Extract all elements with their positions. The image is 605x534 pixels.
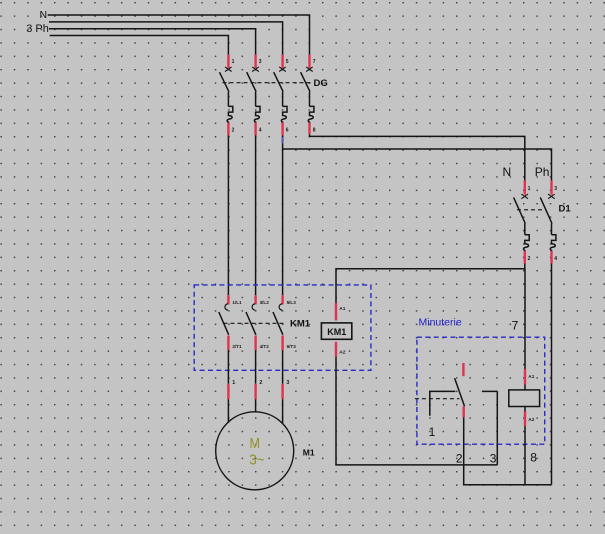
timer coil terminal A2	[524, 407, 526, 412]
node 7 junction: neutral continues down to timer coil	[524, 269, 526, 370]
svg-text:3~: 3~	[249, 451, 265, 468]
timer contact blade	[455, 378, 465, 406]
svg-text:5: 5	[286, 59, 289, 65]
wire phase L3: DG pole 6 to KM1 contact 5, tapped for control Ph	[282, 135, 284, 295]
svg-text:D1: D1	[559, 204, 572, 215]
svg-text:1: 1	[528, 186, 531, 192]
svg-text:A2: A2	[339, 349, 345, 355]
svg-text:8: 8	[530, 451, 537, 465]
timer (Minuterie) enclosure blue dashed	[417, 337, 545, 444]
contactor KM1 enclosure (blue dashed)	[194, 285, 371, 370]
wire timer coil A2 down to node 8	[524, 426, 526, 485]
svg-text:Minuterie: Minuterie	[419, 317, 462, 329]
control breaker D1 pole 1-2	[514, 181, 531, 264]
wire phase L3 bus to DG pole 5	[49, 22, 283, 55]
svg-text:1: 1	[232, 380, 235, 386]
svg-text:5/L3: 5/L3	[287, 300, 297, 305]
wire control phase tap: L3 node right to D1	[283, 149, 552, 181]
main breaker DG pole 7-8	[301, 55, 316, 135]
svg-text:Ph: Ph	[535, 165, 550, 179]
svg-text:A2: A2	[528, 417, 534, 423]
KM1 main contact 3/L2-4/T2	[246, 295, 269, 350]
wire phase from D1 pole 4 down to node 8	[551, 264, 553, 485]
KM1 main contact 5/L3-6/T3	[273, 295, 296, 350]
wire timer contact terminal 3 drop	[496, 391, 498, 465]
main breaker DG pole 1-2	[220, 55, 235, 136]
timer coil terminal A1	[524, 369, 526, 385]
svg-text:8: 8	[313, 128, 316, 134]
timer contact terminal 3 seat	[482, 390, 497, 392]
svg-text:4/T2: 4/T2	[260, 344, 270, 349]
svg-text:1/L1: 1/L1	[232, 300, 242, 305]
wire phase L2 bus to DG pole 3	[49, 29, 256, 55]
svg-text:2: 2	[232, 128, 235, 134]
svg-text:2: 2	[259, 380, 262, 386]
KM1 contacts mechanical linkage dashed line	[224, 322, 287, 324]
wire timer contact terminal 2 to node 8	[464, 417, 552, 485]
wire neutral: DG pole 8 right to control circuit D1	[310, 134, 525, 180]
KM1 coil terminal A1	[335, 303, 337, 321]
svg-text:KM1: KM1	[290, 319, 311, 330]
svg-text:4: 4	[259, 128, 262, 134]
svg-text:3/L2: 3/L2	[260, 300, 270, 305]
svg-text:7: 7	[512, 318, 519, 332]
wire neutral from D1 pole 2 to KM1 coil A1	[336, 264, 525, 304]
wire KM1 contact 2/T1 to motor terminal 1	[228, 350, 235, 422]
junction marker on phase L3 tap	[282, 137, 284, 144]
wire KM1 contact 6/T3 to motor terminal 3	[283, 350, 290, 423]
svg-text:DG: DG	[314, 78, 328, 89]
svg-text:A1: A1	[339, 306, 345, 312]
svg-text:2: 2	[456, 451, 463, 465]
timer motor coil	[509, 390, 540, 407]
svg-text:2/T1: 2/T1	[232, 344, 242, 349]
KM1 main contact 1/L1-2/T1	[219, 295, 242, 350]
wire phase L1: DG pole 2 to KM1 contact 1	[227, 135, 229, 295]
svg-text:M1: M1	[303, 447, 315, 457]
svg-text:4: 4	[554, 256, 557, 262]
svg-text:N: N	[40, 9, 48, 21]
svg-text:7: 7	[313, 59, 316, 65]
svg-text:3 Ph: 3 Ph	[26, 23, 49, 35]
wire phase L2: DG pole 4 to KM1 contact 3	[255, 135, 257, 295]
wire phase L1 bus to DG pole 1	[50, 36, 229, 55]
main breaker DG pole 5-6	[274, 55, 289, 136]
KM1 coil terminal A2	[335, 342, 337, 357]
timer contact moving-terminal red tick	[462, 363, 464, 376]
main breaker DG pole 3-4	[247, 55, 262, 136]
svg-text:3: 3	[259, 59, 262, 65]
wire KM1 contact 4/T2 to motor terminal 2	[256, 350, 263, 412]
svg-text:M: M	[250, 435, 261, 452]
timer contact terminal 1 seat	[430, 391, 456, 415]
wire neutral bus to DG pole 7	[48, 15, 310, 55]
svg-text:KM1: KM1	[327, 327, 346, 337]
svg-text:3: 3	[286, 380, 289, 386]
wire KM1 coil A2 down and right to timer contact terminal 3	[336, 357, 497, 465]
D1 mechanical linkage dashed line	[517, 209, 546, 211]
svg-text:6/T3: 6/T3	[287, 344, 297, 349]
svg-text:1: 1	[232, 59, 235, 65]
timer contact mechanical linkage dashed	[415, 398, 460, 400]
svg-text:1: 1	[429, 425, 436, 439]
svg-text:3: 3	[554, 186, 557, 192]
svg-text:6: 6	[286, 128, 289, 134]
svg-text:2: 2	[528, 256, 531, 262]
motor M1 (3-phase)	[216, 412, 294, 490]
svg-text:3: 3	[490, 451, 497, 465]
coil KM1	[321, 323, 351, 339]
svg-text:N: N	[503, 165, 512, 179]
svg-text:A1: A1	[528, 374, 534, 380]
DG mechanical linkage dashed line	[223, 82, 312, 84]
timer contact terminal 2 red segment	[463, 406, 465, 417]
control breaker D1 pole 3-4	[540, 181, 557, 264]
